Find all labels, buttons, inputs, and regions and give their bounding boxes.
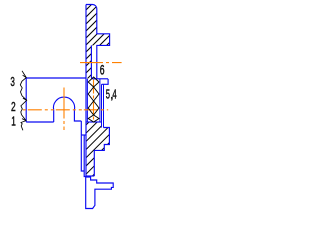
svg-text:4: 4 (112, 88, 116, 102)
packing cavity right edge (99, 79, 101, 122)
lower wall right outline (94, 128, 109, 177)
packing diamond 1 (88, 77, 99, 87)
lower bar bottom (86, 175, 94, 177)
pipe left wall (81, 121, 84, 171)
label 6 shelf (97, 78, 108, 80)
dome left base (53, 110, 55, 122)
pipe right wall (84, 135, 86, 177)
hatching upper wall (part section) (0, 0, 173, 120)
packing diamond 2 (88, 87, 99, 101)
sleeve walls (101, 84, 103, 127)
centerline upper horizontal (80, 62, 122, 64)
svg-text:6: 6 (100, 62, 105, 77)
packing diamond 3 (88, 101, 99, 115)
dome arc (53, 97, 74, 110)
left fitting rectangle (26, 77, 86, 79)
wall left edge full (85, 5, 87, 177)
part number labels (10, 62, 116, 128)
svg-text:2: 2 (11, 100, 16, 114)
arrow barbs (23, 75, 27, 77)
hole in wall above packing (91, 45, 96, 78)
pipe rung (81, 134, 86, 136)
svg-text:1: 1 (11, 115, 16, 129)
nozzle outline (86, 177, 114, 209)
upper wall outline (86, 5, 110, 80)
blue outlines (26, 5, 113, 209)
cavity bottom (86, 121, 101, 123)
centerline packing vertical axis (93, 80, 95, 122)
packing diamond 4 (88, 115, 99, 122)
svg-text:3: 3 (10, 75, 15, 89)
sleeve top (102, 79, 109, 84)
packing cavity left edge (86, 79, 88, 122)
packing cross (X) pattern (88, 77, 99, 122)
orange centerlines (23, 63, 122, 130)
centerline dome vertical axis (63, 88, 65, 131)
hatching lower wall (part section) (21, 0, 268, 190)
dome right base (74, 110, 81, 121)
leader squiggle for labels 1,2,3 (20, 71, 26, 131)
centerline main horizontal axis (23, 109, 108, 111)
